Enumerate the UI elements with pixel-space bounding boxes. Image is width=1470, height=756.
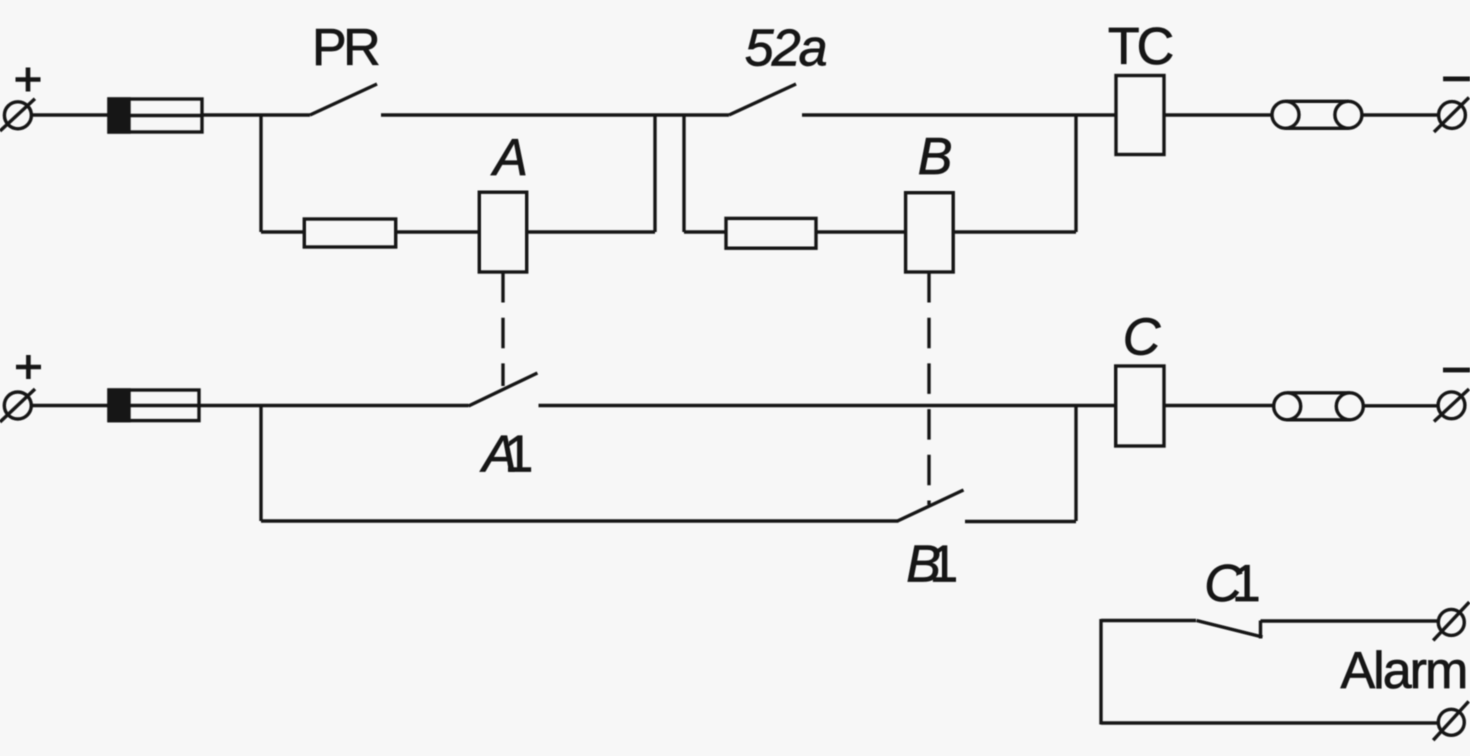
svg-text:1: 1 <box>1232 555 1261 613</box>
svg-text:PR: PR <box>312 19 379 77</box>
svg-text:TC: TC <box>1108 18 1173 76</box>
svg-text:1: 1 <box>504 426 533 484</box>
svg-text:1: 1 <box>929 536 958 594</box>
svg-text:Alarm: Alarm <box>1341 642 1467 700</box>
svg-text:52a: 52a <box>745 20 827 78</box>
svg-text:C: C <box>1123 309 1161 367</box>
svg-text:A: A <box>490 129 528 187</box>
svg-text:B: B <box>918 128 953 186</box>
